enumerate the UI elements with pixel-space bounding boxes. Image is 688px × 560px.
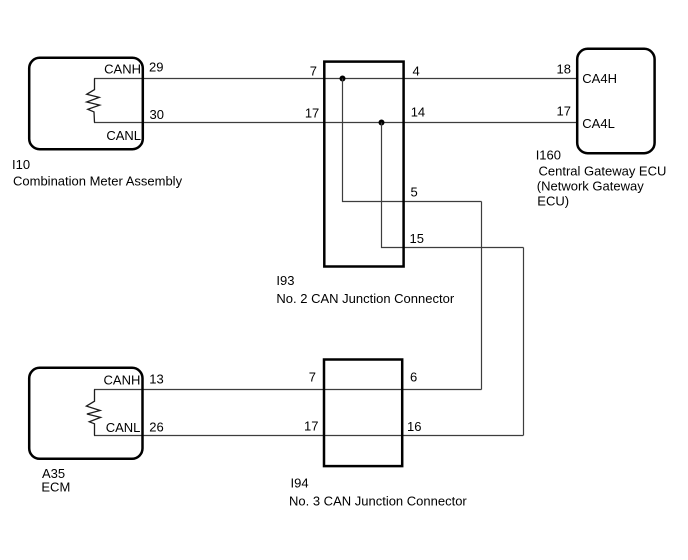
svg-text:(Network Gateway: (Network Gateway	[537, 179, 644, 194]
svg-text:No. 2 CAN Junction Connector: No. 2 CAN Junction Connector	[276, 291, 454, 306]
resistor inside I10 (terminating resistor)	[87, 79, 100, 123]
wire vertical I93 pin5 to I94 pin6	[481, 202, 483, 390]
svg-text:29: 29	[149, 59, 163, 74]
svg-text:No. 3 CAN Junction Connector: No. 3 CAN Junction Connector	[289, 493, 467, 508]
svg-text:14: 14	[411, 105, 425, 120]
wire from junction down to I93 pin5 then right	[343, 79, 482, 202]
svg-text:26: 26	[149, 420, 163, 435]
component I10 Combination Meter Assembly box	[29, 58, 143, 149]
svg-text:4: 4	[413, 63, 420, 78]
component I160 Central Gateway ECU box	[577, 49, 654, 153]
svg-text:16: 16	[407, 419, 421, 434]
svg-text:CA4H: CA4H	[582, 71, 617, 86]
svg-text:17: 17	[557, 104, 571, 119]
component A35 ECM box	[29, 368, 142, 459]
wire from junction down to I93 pin15 then right	[382, 123, 524, 248]
component I93 No.2 CAN Junction Connector box	[324, 62, 403, 267]
wire CANL I10 pin30 to I93 pin17/pin14 to I160 pin17	[94, 122, 577, 124]
svg-text:17: 17	[304, 419, 318, 434]
svg-text:15: 15	[410, 231, 424, 246]
svg-text:18: 18	[557, 61, 571, 76]
resistor inside A35 (terminating resistor)	[86, 390, 100, 436]
svg-text:ECU): ECU)	[537, 194, 569, 209]
svg-text:30: 30	[150, 107, 164, 122]
svg-text:7: 7	[309, 370, 316, 385]
svg-text:CANH: CANH	[104, 373, 141, 388]
svg-text:CANH: CANH	[104, 62, 141, 77]
svg-text:I93: I93	[276, 273, 294, 288]
svg-text:17: 17	[305, 106, 319, 121]
svg-text:I10: I10	[12, 157, 30, 172]
wire CANH I10 pin29 to I93 pin7/pin4 to I160 pin18	[94, 78, 577, 80]
svg-text:Central Gateway ECU: Central Gateway ECU	[539, 164, 667, 179]
svg-text:5: 5	[411, 184, 418, 199]
svg-text:ECM: ECM	[41, 479, 70, 494]
node junction dot on pin17 line inside I93	[379, 120, 385, 126]
svg-text:CANL: CANL	[106, 420, 141, 435]
svg-text:7: 7	[310, 63, 317, 78]
svg-text:CA4L: CA4L	[582, 116, 615, 131]
svg-text:I94: I94	[291, 475, 309, 490]
svg-text:Combination Meter Assembly: Combination Meter Assembly	[13, 173, 183, 188]
svg-text:13: 13	[149, 371, 163, 386]
wire CANL A35 pin26 to I94 pin17/pin16	[94, 435, 523, 437]
node junction dot on pin7 line inside I93	[340, 76, 346, 82]
svg-text:6: 6	[410, 370, 417, 385]
svg-text:CANL: CANL	[106, 128, 141, 143]
svg-text:I160: I160	[536, 148, 561, 163]
component I94 No.3 CAN Junction Connector box	[324, 360, 402, 467]
wire CANH A35 pin13 to I94 pin7/pin6	[94, 389, 482, 391]
wire vertical I93 pin15 to I94 pin16	[523, 248, 525, 436]
